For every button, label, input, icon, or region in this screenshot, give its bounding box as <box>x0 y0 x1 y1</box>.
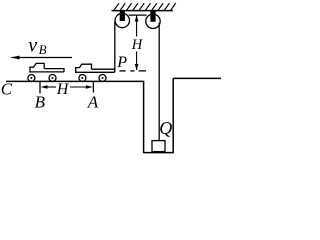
svg-text:B: B <box>35 92 46 111</box>
pulley left wheel <box>115 13 129 27</box>
pulley right bracket <box>150 11 155 22</box>
truck left wheel rear <box>28 75 35 82</box>
truck right cab <box>76 64 92 73</box>
truck right bed <box>76 69 115 72</box>
truck right wheel rear <box>79 75 86 82</box>
pit right wall <box>172 78 174 153</box>
rope between pulleys <box>129 14 147 16</box>
dashed level line at P <box>120 70 147 72</box>
tick mark A <box>92 81 94 92</box>
tick mark B <box>39 81 41 93</box>
truck left wheel front <box>49 75 56 82</box>
truck left cab <box>30 63 44 72</box>
ceiling hatching <box>114 3 176 10</box>
ground line left <box>6 80 144 82</box>
rope right drop to weight <box>158 23 160 141</box>
truck right wheel front <box>99 75 106 82</box>
svg-text:P: P <box>116 54 127 71</box>
svg-text:v: v <box>28 34 37 56</box>
velocity arrow vB <box>10 56 72 60</box>
pit left wall <box>143 81 145 153</box>
rope left drop to truck <box>114 22 116 73</box>
svg-text:Q: Q <box>159 118 172 138</box>
truck left bed <box>30 69 64 72</box>
dimension H horizontal arrow between B and A <box>41 85 93 89</box>
pulley left bracket <box>120 11 125 21</box>
weight Q block <box>152 141 165 152</box>
svg-text:B: B <box>39 42 47 57</box>
svg-text:H: H <box>56 81 70 98</box>
svg-text:A: A <box>87 92 99 111</box>
ground line right <box>173 77 221 79</box>
pit bottom <box>144 152 174 154</box>
ceiling line <box>112 10 173 12</box>
pulley right wheel <box>146 14 160 28</box>
dimension H vertical arrow <box>135 15 139 70</box>
svg-text:H: H <box>131 37 144 53</box>
svg-text:C: C <box>1 80 13 99</box>
